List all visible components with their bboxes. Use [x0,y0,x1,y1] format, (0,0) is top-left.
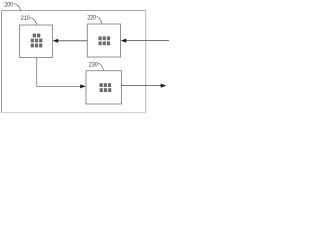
block 210 text line2 [31,39,43,43]
wire: block 220 to block 210 [58,40,88,42]
block 230 [86,71,122,104]
arrowhead into 210 right edge [53,39,59,43]
svg-text:200: 200 [4,1,13,8]
block 220 text line2 [99,41,111,45]
arrowhead into 220 right edge [121,39,127,43]
leader 210 [30,18,37,25]
block 230 text line1 [100,83,112,87]
svg-text:220: 220 [87,14,96,21]
svg-text:210: 210 [21,15,30,22]
block 210 [20,25,53,58]
wire: block 230 output to the right [122,85,162,87]
outer block 200 (device boundary) [2,11,146,113]
leader 220 [97,16,102,23]
block 230 text line2 [100,88,112,92]
arrowhead into 230 left edge [80,84,86,88]
block 220 text line1 [99,36,111,40]
block 210 text line1 [33,34,41,38]
wire: external input into block 220 [126,40,170,42]
arrowhead output pointing right [161,84,167,88]
wire: block 210 down elbow to block 230 [37,58,81,87]
block 210 text line3 [31,44,43,48]
leader 230 [98,63,104,70]
svg-text:230: 230 [89,62,98,69]
block diagram figure [0,0,169,120]
leader 200 [14,4,21,11]
block 220 [87,24,120,57]
